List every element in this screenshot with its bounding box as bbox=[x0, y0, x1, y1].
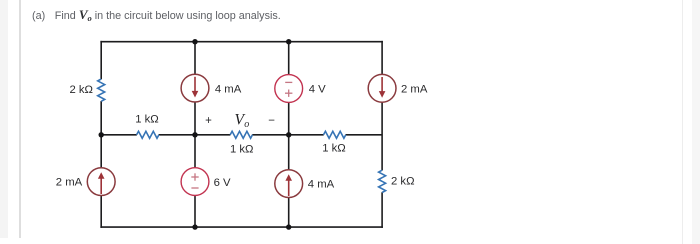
wire middle horizontal segment 1 bbox=[101, 134, 137, 136]
wire left vertical lower segment bbox=[100, 101, 102, 228]
resistor 1 kOhm (middle row, left) bbox=[137, 131, 159, 138]
svg-text:6 V: 6 V bbox=[214, 177, 231, 189]
svg-text:−: − bbox=[268, 115, 275, 127]
left vertical rule bbox=[19, 0, 20, 238]
svg-text:2 mA: 2 mA bbox=[56, 177, 83, 189]
svg-text:2 kΩ: 2 kΩ bbox=[69, 84, 93, 96]
resistor 1 kOhm (middle row, right) bbox=[324, 131, 346, 138]
right vertical rule bbox=[682, 0, 684, 244]
resistor 2 kOhm (bottom right, vertical) bbox=[379, 170, 386, 192]
svg-text:4 V: 4 V bbox=[309, 84, 326, 96]
svg-text:o: o bbox=[244, 119, 249, 130]
junction dot middle-left node bbox=[99, 132, 104, 137]
resistor 1 kOhm Vo (middle row, center) bbox=[230, 131, 252, 138]
junction dot middle node B bbox=[192, 132, 197, 137]
wire right vertical lower segment bbox=[381, 192, 383, 228]
junction dot bottom node C bbox=[286, 224, 291, 229]
svg-text:+: + bbox=[205, 115, 212, 127]
svg-text:1 kΩ: 1 kΩ bbox=[230, 144, 254, 156]
voltage source 6 V (plus top, minus bottom) bbox=[181, 168, 209, 196]
current source 4 mA (top, arrow down) bbox=[181, 74, 209, 102]
svg-text:2 kΩ: 2 kΩ bbox=[391, 176, 415, 188]
wire bottom horizontal bbox=[100, 226, 383, 228]
resistor 2 kOhm (top left, vertical) bbox=[98, 79, 105, 101]
svg-text:4 mA: 4 mA bbox=[308, 179, 335, 191]
current source 2 mA (top right, arrow down) bbox=[368, 74, 396, 102]
svg-text:4 mA: 4 mA bbox=[215, 83, 242, 95]
wire middle horizontal segment 2 bbox=[159, 134, 231, 136]
wire vertical branch C (x=288.7) bbox=[288, 42, 290, 227]
wire middle horizontal segment 4 bbox=[346, 134, 383, 136]
junction dot top node B bbox=[192, 39, 197, 44]
junction dot top node C bbox=[286, 39, 291, 44]
problem statement text bbox=[32, 8, 281, 23]
wire vertical branch B (x=195) bbox=[194, 42, 196, 227]
wire top horizontal bbox=[100, 41, 383, 43]
right scrollbar strip bbox=[692, 0, 700, 244]
junction dot bottom node B bbox=[192, 224, 197, 229]
left page gutter strip bbox=[0, 0, 8, 238]
current source 4 mA (bottom, arrow up) bbox=[275, 170, 303, 198]
wire right vertical upper segment bbox=[381, 41, 383, 171]
svg-text:2 mA: 2 mA bbox=[401, 84, 428, 96]
svg-text:1 kΩ: 1 kΩ bbox=[322, 143, 346, 155]
wire left vertical upper segment bbox=[100, 41, 102, 79]
svg-text:1 kΩ: 1 kΩ bbox=[135, 113, 159, 125]
voltage source 4 V (minus top, plus bottom) bbox=[275, 75, 303, 103]
junction dot middle node C bbox=[286, 132, 291, 137]
wire middle horizontal segment 3 bbox=[252, 134, 323, 136]
current source 2 mA (bottom left, arrow up) bbox=[87, 168, 115, 196]
